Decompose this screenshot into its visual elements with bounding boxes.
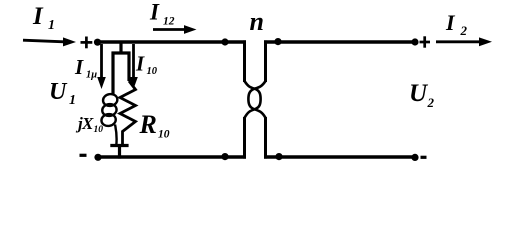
svg-text:U: U xyxy=(49,79,68,105)
svg-text:10: 10 xyxy=(158,129,170,141)
svg-text:n: n xyxy=(250,7,264,36)
svg-text:I: I xyxy=(445,10,456,35)
svg-text:10: 10 xyxy=(94,125,104,135)
svg-text:12: 12 xyxy=(163,16,175,28)
svg-text:1μ: 1μ xyxy=(86,70,97,81)
svg-text:10: 10 xyxy=(147,66,158,77)
svg-text:R: R xyxy=(139,110,157,139)
svg-text:I: I xyxy=(74,55,84,79)
svg-text:I: I xyxy=(149,0,160,25)
svg-text:2: 2 xyxy=(460,23,468,38)
svg-text:U: U xyxy=(409,80,429,107)
svg-text:1: 1 xyxy=(69,93,76,108)
svg-text:2: 2 xyxy=(427,95,435,110)
svg-text:I: I xyxy=(32,3,44,30)
svg-text:1: 1 xyxy=(48,18,55,33)
svg-text:jX: jX xyxy=(75,114,94,133)
svg-text:I: I xyxy=(135,52,145,76)
